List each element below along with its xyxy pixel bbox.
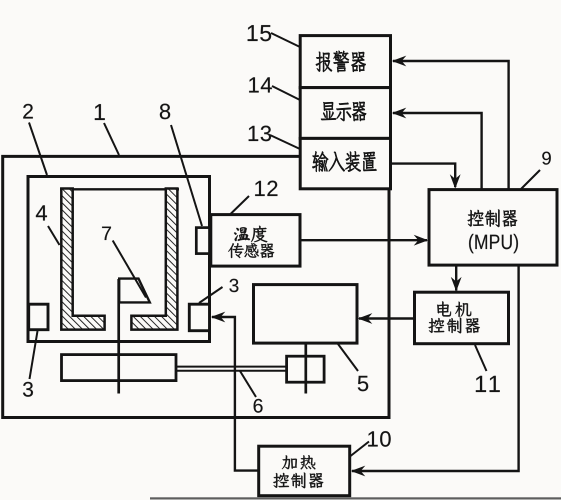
pointer line 8 xyxy=(171,125,202,226)
label 控制器 (box 10) xyxy=(273,473,323,489)
pointer line 14 xyxy=(272,86,300,100)
coupling box xyxy=(287,356,325,382)
ref numeral 1 xyxy=(95,104,105,120)
drive shaft 6 (double line) xyxy=(176,366,288,368)
heating controller box 10 xyxy=(259,446,350,496)
wire MPU to motor controller 11 xyxy=(455,265,457,290)
label 传感器 xyxy=(228,243,274,258)
ref numeral 7 sample holder xyxy=(102,227,111,240)
ref numeral 11 xyxy=(476,376,500,392)
pointer line 4 xyxy=(48,226,60,245)
heater element 3 left box xyxy=(29,304,48,330)
drive unit box below chamber xyxy=(62,355,177,381)
pointer line 6 xyxy=(240,371,256,397)
heater wall 4 left (hatched) xyxy=(61,189,104,330)
ref numeral 12 xyxy=(255,181,277,196)
ref numeral 3 right xyxy=(229,279,238,292)
ref numeral 6 xyxy=(254,399,263,413)
label 显示器 xyxy=(321,102,366,121)
motor shaft vertical xyxy=(304,344,307,394)
wire MPU to alarm 15 xyxy=(393,61,509,190)
label 温度 xyxy=(234,226,267,242)
ref numeral 4 xyxy=(36,205,47,220)
chamber box 2 xyxy=(28,177,210,342)
display box 14 xyxy=(300,88,390,139)
ref numeral 8 xyxy=(160,104,170,120)
wire MPU to display 14 xyxy=(393,113,482,190)
controller MPU box 9 xyxy=(429,190,557,266)
pointer line 9 xyxy=(521,170,540,189)
sample holder 7 (trapezoid) xyxy=(119,279,150,303)
rotating shaft (vertical) xyxy=(117,279,120,394)
ref numeral 14 xyxy=(249,77,272,92)
ref numeral 15 xyxy=(248,25,271,41)
pointer line 13 xyxy=(270,135,300,149)
pointer line 3 right xyxy=(199,287,223,303)
ref numeral 3 left xyxy=(23,382,33,397)
pointer line 12 xyxy=(230,196,249,215)
label 加热 xyxy=(282,455,316,469)
ref numeral 10 xyxy=(368,431,391,447)
pointer line 5 xyxy=(338,344,358,371)
sensor element 8 box xyxy=(196,228,209,254)
scan artifact bottom strip xyxy=(150,497,561,499)
ref numeral 9 xyxy=(542,152,551,165)
label 输入装置 xyxy=(312,151,376,171)
ref numeral 13 xyxy=(249,126,271,142)
heater element 3 right box xyxy=(189,304,209,331)
wire temp sensor 12 to MPU xyxy=(300,239,427,241)
wire MPU to heating controller 10 xyxy=(352,265,519,471)
pointer line 3 left xyxy=(30,331,38,379)
label 控制器 (box 11) xyxy=(428,318,479,334)
apparatus housing box 1 xyxy=(3,156,389,417)
ref numeral 2 xyxy=(23,104,33,119)
pointer line 7 xyxy=(113,241,146,298)
label 报警器 xyxy=(316,51,366,72)
alarm box 15 xyxy=(300,36,390,88)
pointer line 2 xyxy=(29,123,47,176)
motor controller box 11 xyxy=(415,292,509,344)
ref numeral 5 xyxy=(358,376,368,391)
wire heating controller 10 to heater 3 xyxy=(212,317,259,471)
motor box 5 xyxy=(254,285,358,344)
pointer line 11 xyxy=(475,345,487,371)
pointer line 15 xyxy=(271,33,300,47)
label 控制器 (box 9) xyxy=(468,209,518,227)
input device box 13 xyxy=(300,138,390,188)
wire input 13 to MPU xyxy=(391,164,456,187)
vessel rim line xyxy=(60,188,179,190)
label 电机 xyxy=(437,301,471,317)
heater wall 4 right (hatched) xyxy=(131,189,177,330)
label (MPU) xyxy=(469,234,518,253)
pointer line 1 xyxy=(104,123,119,155)
wire motor controller 11 to motor 5 xyxy=(359,317,415,319)
temperature sensor box 12 xyxy=(211,215,300,267)
pointer line 10 xyxy=(351,442,370,457)
